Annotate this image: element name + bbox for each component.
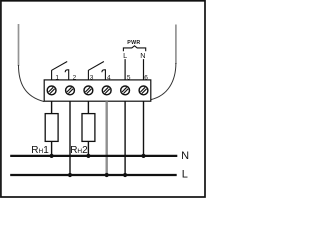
terminal 4 screw: [102, 86, 111, 95]
svg-text:5: 5: [127, 75, 131, 82]
svg-text:1: 1: [55, 75, 59, 82]
svg-text:6: 6: [144, 75, 148, 82]
PWR bracket: [123, 46, 145, 51]
junction: terminal 4 wire on L line: [105, 173, 109, 177]
wire: terminal 6 to N line: [143, 101, 145, 156]
wire: terminal 3 to resistor RH2: [87, 101, 89, 113]
junction: RH1 on N line: [50, 154, 54, 158]
junction: terminal 6 wire on N line: [141, 154, 145, 158]
terminal 6 screw: [139, 86, 148, 95]
terminal 3 screw: [84, 86, 93, 95]
svg-text:3: 3: [90, 75, 94, 82]
wire: terminal 4 to L line (gray conductor): [105, 101, 107, 175]
terminal 5 screw: [121, 86, 130, 95]
L supply line: [10, 174, 177, 176]
junction: RH2 on N line: [86, 154, 90, 158]
wire: resistor RH2 to N line: [87, 141, 89, 156]
svg-text:N: N: [140, 51, 145, 60]
svg-text:2: 2: [73, 75, 77, 82]
wire: terminal 2 to L line: [69, 101, 71, 175]
relay contact K2 (terminals 3-4): [88, 62, 105, 80]
N supply line: [10, 155, 177, 157]
device housing outline (left side): [19, 24, 45, 102]
wire: L label to terminal 5: [124, 59, 126, 80]
wire: terminal 1 to resistor RH1: [51, 101, 53, 113]
wire: N label to terminal 6: [143, 59, 145, 80]
junction: terminal 2 wire on L line: [68, 173, 72, 177]
wire: terminal 5 to L line: [124, 101, 126, 175]
terminal block: [44, 80, 151, 101]
device housing outline (right side): [151, 25, 176, 100]
relay contact K1 (terminals 1-2): [52, 62, 69, 80]
terminal 1 screw: [47, 86, 56, 95]
svg-text:4: 4: [107, 75, 111, 82]
svg-text:L: L: [123, 51, 127, 60]
svg-text:PWR: PWR: [127, 40, 140, 46]
resistor RH1: [45, 114, 58, 142]
resistor RH2: [82, 114, 95, 142]
terminal 2 screw: [66, 86, 75, 95]
junction: terminal 5 wire on L line: [123, 173, 127, 177]
wire: resistor RH1 to N line: [51, 141, 53, 156]
svg-text:N: N: [181, 150, 189, 162]
svg-text:L: L: [182, 168, 188, 180]
